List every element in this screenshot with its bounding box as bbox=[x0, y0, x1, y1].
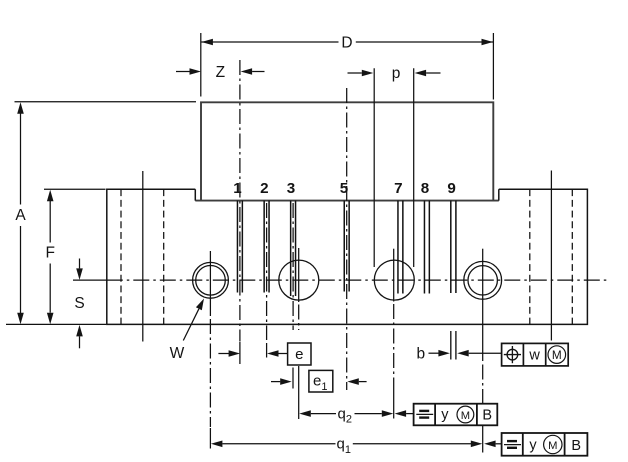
svg-text:A: A bbox=[15, 207, 26, 224]
dimension S bbox=[79, 259, 81, 269]
svg-text:D: D bbox=[341, 35, 352, 52]
svg-text:5: 5 bbox=[340, 180, 349, 197]
dimension e bbox=[218, 353, 229, 355]
pin 9 bbox=[451, 201, 456, 293]
dimension e1 bbox=[271, 381, 280, 383]
tolerance frame: position w M bbox=[502, 343, 569, 366]
svg-text:p: p bbox=[392, 65, 401, 82]
pin 5 centerline bbox=[346, 88, 348, 390]
e value box bbox=[288, 343, 311, 365]
svg-text:F: F bbox=[45, 245, 54, 262]
pin 8 bbox=[424, 201, 429, 294]
left slot centerline bbox=[142, 171, 144, 342]
pin 1 bbox=[237, 201, 242, 293]
extension line flange bottom (for A,F) bbox=[6, 323, 106, 325]
svg-text:9: 9 bbox=[447, 180, 455, 197]
hole 3 centerline bbox=[393, 249, 395, 302]
svg-text:M: M bbox=[548, 440, 557, 452]
pin 3 centerline bbox=[292, 203, 294, 330]
pin 5 bbox=[344, 201, 349, 292]
svg-text:y: y bbox=[441, 407, 449, 423]
horizontal centerline through holes bbox=[73, 279, 107, 281]
tolerance frame: coplanarity y M B (q1 row) bbox=[502, 433, 588, 456]
hole 2 (large circle) bbox=[279, 260, 319, 300]
e1 value box bbox=[309, 370, 333, 392]
tolerance frame: coplanarity y M B (q2 row) bbox=[414, 404, 498, 426]
pin 7 bbox=[398, 201, 403, 294]
hole 4 centerline bbox=[482, 249, 484, 361]
right slot centerline bbox=[550, 171, 552, 341]
pin 3 bbox=[291, 201, 296, 296]
hole 2 centerline bbox=[298, 248, 300, 302]
coplanarity symbol bbox=[504, 444, 521, 446]
dimension D bbox=[201, 41, 493, 43]
extension line flange top (for F) bbox=[44, 188, 106, 190]
svg-text:B: B bbox=[571, 438, 581, 454]
dimension Z bbox=[176, 71, 190, 73]
left slot hidden edges (dashed) bbox=[121, 189, 164, 324]
svg-text:y: y bbox=[529, 437, 537, 453]
svg-text:2: 2 bbox=[260, 180, 268, 197]
hole 1 centerline bbox=[209, 251, 211, 316]
position symbol bbox=[504, 346, 521, 363]
right slot hidden edges (dashed) bbox=[530, 189, 573, 324]
pin 2 centerline bbox=[266, 203, 268, 340]
mounting hole 4 (double ring) bbox=[464, 261, 502, 299]
dimension A bbox=[17, 102, 24, 114]
svg-text:M: M bbox=[552, 348, 562, 362]
pin 2 bbox=[264, 201, 269, 293]
package body (plastic upper block) bbox=[195, 102, 499, 200]
M in circle bbox=[548, 346, 566, 364]
svg-text:Z: Z bbox=[216, 64, 225, 81]
dimension p bbox=[348, 72, 362, 74]
mounting hole 1 (double ring) bbox=[193, 262, 229, 298]
svg-text:8: 8 bbox=[421, 180, 429, 197]
dimension p extension lines bbox=[374, 68, 414, 267]
dimension q2 bbox=[299, 410, 311, 417]
svg-text:M: M bbox=[461, 410, 470, 422]
svg-text:S: S bbox=[74, 295, 84, 312]
svg-text:b: b bbox=[416, 345, 425, 362]
svg-text:w: w bbox=[528, 347, 540, 363]
svg-text:B: B bbox=[482, 408, 492, 424]
dimension F bbox=[47, 190, 54, 202]
svg-text:7: 7 bbox=[394, 180, 402, 197]
svg-text:1: 1 bbox=[233, 180, 242, 197]
dimension D extension lines bbox=[201, 33, 494, 100]
flange (mounting tab outline) bbox=[107, 189, 588, 324]
svg-text:W: W bbox=[170, 345, 185, 362]
hole 3 (large circle) bbox=[374, 260, 414, 300]
pin 9 width extension lines bbox=[451, 331, 456, 360]
dimension q1 bbox=[211, 441, 223, 448]
svg-text:e: e bbox=[295, 346, 303, 363]
coplanarity symbol bbox=[416, 413, 433, 415]
extension line body top (for A) bbox=[15, 101, 197, 103]
svg-text:3: 3 bbox=[287, 180, 295, 197]
pin 1 centerline bbox=[239, 60, 241, 341]
